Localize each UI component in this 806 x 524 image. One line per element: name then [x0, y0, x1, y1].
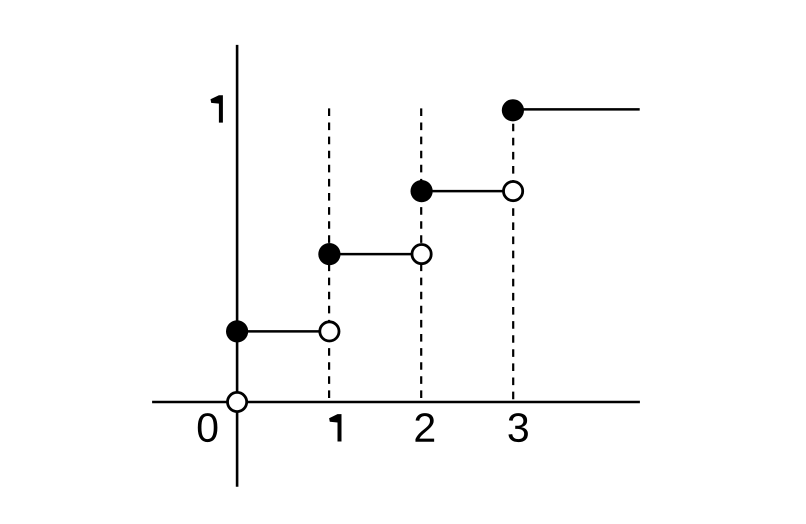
filled dot (1, level2) [318, 243, 340, 265]
dashed line x=2 [420, 108, 422, 402]
open circle (3, level3) [503, 182, 522, 201]
open circle (2, level2) [412, 245, 431, 264]
step segment level 3 [422, 190, 513, 193]
open circle (1, level1) [320, 322, 339, 341]
step segment level 2 [329, 253, 421, 256]
step segment level 1 [237, 330, 329, 333]
dashed line x=1 [328, 108, 330, 402]
dashed line x=3 [512, 110, 514, 402]
x-axis label 1 [329, 414, 341, 441]
filled dot (0, level1) [226, 320, 248, 342]
filled dot (2, level3) [411, 180, 433, 202]
step segment level 4 (top) [513, 108, 640, 111]
y-axis label 1 [211, 95, 223, 122]
y-axis [236, 45, 239, 487]
x-axis label 3 [508, 413, 527, 442]
filled dot (3, level4) [502, 99, 524, 121]
x-axis label 0 [198, 413, 218, 442]
open circle at origin (0,0) [228, 392, 247, 411]
x-axis [152, 401, 640, 404]
x-axis label 2 [415, 413, 434, 442]
